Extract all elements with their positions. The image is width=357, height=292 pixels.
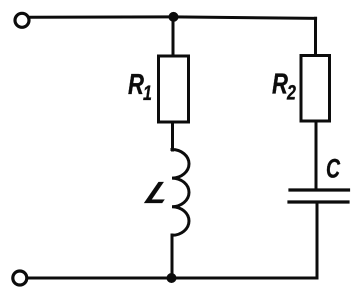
node A (top junction) xyxy=(169,12,179,22)
wire R1 bottom to L top xyxy=(171,123,174,150)
terminal T1 (top-left input) xyxy=(15,13,29,27)
svg-text:1: 1 xyxy=(143,81,152,105)
node B (bottom junction) xyxy=(167,273,177,283)
wire capacitor to bottom rail xyxy=(316,202,319,278)
inductor L xyxy=(172,150,189,236)
wire top rail xyxy=(31,17,316,18)
svg-text:L: L xyxy=(140,176,177,210)
svg-text:R: R xyxy=(272,69,288,101)
svg-text:2: 2 xyxy=(286,80,296,104)
resistor R2 xyxy=(301,56,330,122)
capacitor C top plate xyxy=(290,188,349,191)
wire bottom rail xyxy=(28,277,317,280)
wire R2 bottom to capacitor xyxy=(315,121,318,190)
terminal T2 (bottom-left input) xyxy=(13,271,27,285)
wire L bottom to node B xyxy=(171,235,174,276)
svg-text:R: R xyxy=(128,69,144,101)
resistor R1 xyxy=(159,56,189,122)
capacitor C bottom plate xyxy=(289,200,348,203)
svg-text:C: C xyxy=(326,153,341,183)
wire top-right corner down to R2 xyxy=(314,18,317,55)
wire node A to R1 top xyxy=(172,17,175,56)
